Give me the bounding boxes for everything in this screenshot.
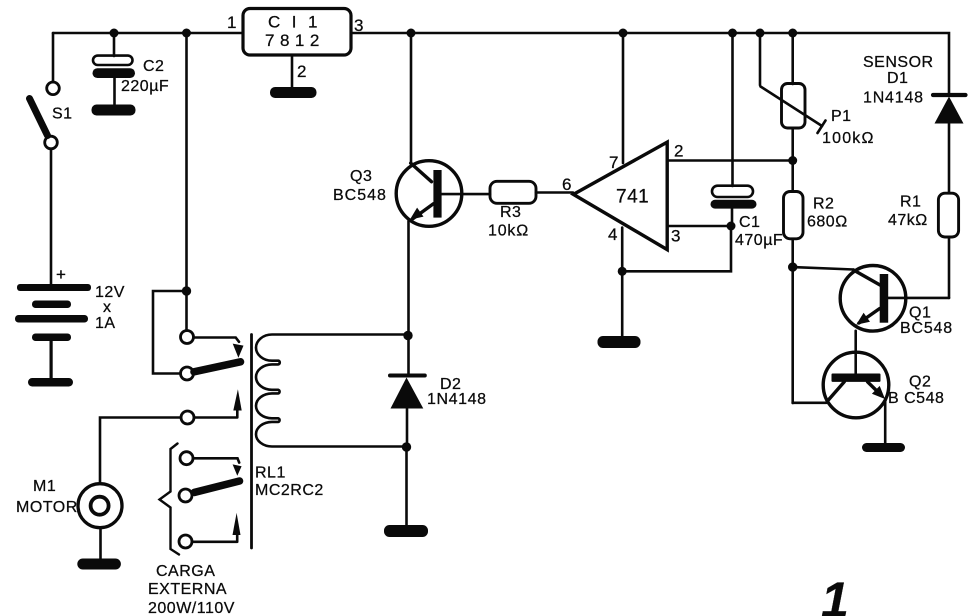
svg-text:7812: 7812 xyxy=(265,31,325,50)
svg-text:1N4148: 1N4148 xyxy=(863,90,924,107)
svg-text:741: 741 xyxy=(616,187,649,208)
svg-text:Q3: Q3 xyxy=(350,168,372,185)
svg-text:MOTOR: MOTOR xyxy=(16,499,78,516)
svg-text:EXTERNA: EXTERNA xyxy=(148,581,227,598)
svg-text:BC548: BC548 xyxy=(900,320,953,337)
svg-text:2: 2 xyxy=(297,62,307,81)
svg-text:R2: R2 xyxy=(813,196,834,213)
svg-text:220µF: 220µF xyxy=(121,78,169,95)
svg-text:1N4148: 1N4148 xyxy=(427,391,487,408)
svg-text:Q1: Q1 xyxy=(909,305,931,322)
svg-text:10kΩ: 10kΩ xyxy=(488,223,529,240)
svg-text:S1: S1 xyxy=(52,106,73,123)
svg-text:+: + xyxy=(56,265,66,284)
svg-text:100kΩ: 100kΩ xyxy=(822,130,875,147)
svg-text:P1: P1 xyxy=(831,108,852,125)
svg-text:BC548: BC548 xyxy=(333,187,387,204)
svg-text:470µF: 470µF xyxy=(735,232,783,249)
svg-text:47kΩ: 47kΩ xyxy=(888,212,928,229)
svg-text:680Ω: 680Ω xyxy=(807,214,848,231)
svg-text:SENSOR: SENSOR xyxy=(863,54,934,71)
svg-text:C1: C1 xyxy=(739,214,760,231)
svg-text:CI1: CI1 xyxy=(268,13,329,32)
svg-text:M1: M1 xyxy=(33,478,56,495)
svg-text:1A: 1A xyxy=(95,315,116,332)
svg-text:R1: R1 xyxy=(900,194,921,211)
svg-text:D1: D1 xyxy=(887,70,908,87)
svg-text:C2: C2 xyxy=(143,58,164,75)
svg-text:RL1: RL1 xyxy=(255,465,286,482)
svg-text:1: 1 xyxy=(227,13,237,32)
svg-text:x: x xyxy=(103,299,112,316)
svg-text:200W/110V: 200W/110V xyxy=(148,600,235,616)
svg-text:6: 6 xyxy=(562,175,572,194)
svg-text:Q2: Q2 xyxy=(909,374,931,391)
svg-text:4: 4 xyxy=(608,225,618,244)
svg-text:2: 2 xyxy=(674,142,684,161)
svg-text:3: 3 xyxy=(354,16,364,35)
svg-text:R3: R3 xyxy=(500,204,521,221)
svg-text:CARGA: CARGA xyxy=(156,563,215,580)
svg-text:MC2RC2: MC2RC2 xyxy=(255,482,324,499)
svg-text:7: 7 xyxy=(609,153,619,172)
svg-text:3: 3 xyxy=(671,227,681,246)
svg-text:1: 1 xyxy=(821,572,849,616)
svg-text:B C548: B C548 xyxy=(888,390,944,407)
